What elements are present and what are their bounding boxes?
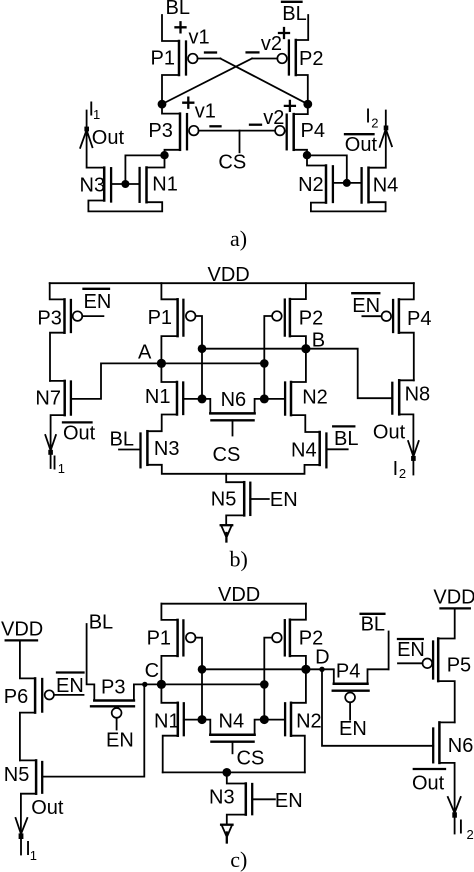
wire P3 source [162,104,180,114]
svg-text:N2: N2 [298,174,324,196]
svg-text:BL: BL [282,3,306,25]
wire VDD bar (fig c left) [6,639,37,641]
wire VDD rail (fig b) [50,282,414,284]
wire N2 source to N4 [291,415,320,432]
transistor P4 (PMOS, fig a) [275,114,325,150]
label minus (P1 gate) [205,51,216,53]
transistor N5 (NMOS, fig b) [211,474,251,516]
wire N1 drain [147,157,165,168]
node junction A-line right [260,359,269,368]
svg-text:b): b) [230,547,248,572]
wire right mirror gate link [307,155,347,183]
wire N3 gate stub EN [252,798,275,800]
wire P2 gate riser to node A line [264,316,272,399]
svg-text:c): c) [230,847,247,872]
wire P4 drain to N8 [399,333,414,381]
current arrow I1 (fig c) [16,818,28,855]
wire node A to N7 gate [71,363,161,399]
label I1 (fig b) [52,452,65,476]
svg-text:P3: P3 [101,677,125,699]
node N2 gate junction [260,394,269,403]
svg-text:P5: P5 [447,654,471,676]
svg-text:EN: EN [106,730,134,752]
svg-text:N8: N8 [405,383,431,405]
wire P4 source [294,104,308,114]
svg-text:Out: Out [412,772,445,794]
svg-text:EN: EN [84,291,112,313]
wire bottom rail (fig c) [163,771,305,773]
label EN-bar (P5) [397,639,425,661]
transistor P3 (PMOS, fig b) [37,283,82,333]
svg-text:Out: Out [345,134,378,156]
node right cross junction [303,100,312,109]
svg-text:I: I [458,817,464,839]
node BL label (fig a left) [166,0,190,19]
ground symbol (fig c) [221,825,232,843]
label minus (left of CS) [211,125,221,127]
svg-text:P2: P2 [299,48,323,70]
svg-text:VDD: VDD [218,584,260,606]
wire P1 gate lead [198,58,221,60]
wire node B to N8 gate [306,349,392,399]
current arrow I2 (fig a) [380,126,392,147]
wire N3 gate stub BL [119,449,141,451]
transistor N6 (NMOS, fig c) [433,722,473,763]
wire N2 source to rail (fig c) [291,736,305,773]
label CS (fig b) [213,444,241,466]
svg-text:CS: CS [218,152,246,174]
wire P1 drain to node C [161,656,177,685]
wire N7 source to arrow [51,415,65,449]
wire N2 gate lead (fig c) [264,719,285,721]
svg-text:Out: Out [31,797,64,819]
label Out (fig a left) [92,127,125,149]
svg-text:C: C [145,660,159,682]
wire node D riser to N6 gate [322,669,433,746]
node C junction [157,680,166,689]
transistor N7 (NMOS, fig b) [35,381,71,415]
label Out (fig c left) [31,797,64,819]
transistor P3 (PMOS horizontal, fig c) [91,677,161,730]
svg-text:Out: Out [373,422,406,444]
label I1 (fig c) [25,838,37,863]
current arrow I1 (fig a) [80,127,92,148]
svg-text:a): a) [230,226,247,251]
svg-text:2: 2 [399,466,406,481]
node right gate junction [343,179,351,187]
label EN-bar (P6) [56,673,84,698]
wire CS stub [239,131,241,153]
svg-text:N3: N3 [154,438,180,460]
wire node A line [161,362,264,364]
transistor N6 (NMOS horizontal, fig b) [202,389,264,436]
node junction D-line left [198,665,207,674]
transistor N1 (NMOS, fig c) [154,684,184,735]
svg-text:N4: N4 [291,439,317,461]
transistor P1 (PMOS, fig c) [147,604,196,656]
transistor P2 (PMOS, fig c) [272,604,323,656]
label BL (fig b left) [110,429,134,451]
label VDD (fig c center) [218,584,260,606]
caption c) [230,847,247,872]
node D junction [301,665,310,674]
wire P4 drain [294,150,307,155]
svg-text:N1: N1 [154,710,180,732]
current arrow I1 (fig b) [45,435,56,468]
svg-text:I: I [52,452,58,474]
label EN (P3 fig c) [106,730,134,752]
svg-text:P1: P1 [151,48,175,70]
svg-text:EN: EN [270,489,298,511]
wire P1 drain to node A [161,336,177,363]
wire P1 drain [162,75,179,104]
label C [145,660,159,682]
wire VDD rail (fig c) [161,603,306,605]
wire N4 drain [369,111,386,168]
svg-text:v1: v1 [189,27,210,49]
transistor N3 (NMOS, fig a) [80,168,112,202]
label minus (P2 gate) [247,51,259,53]
wire P5 drain to N6 [438,681,455,722]
svg-text:N6: N6 [221,389,247,411]
label EN (fig b) [270,489,298,511]
svg-text:CS: CS [213,444,241,466]
wire P1 gate riser to node B line [196,316,203,399]
wire N2 drain [307,157,326,166]
transistor N4 (NMOS horizontal, fig c) [202,711,264,754]
node left cross junction [158,100,167,109]
svg-text:N6: N6 [448,735,474,757]
transistor N3 (NMOS, fig c) [209,772,252,814]
svg-text:P4: P4 [336,660,360,682]
wire BL to P3 [87,624,95,701]
svg-text:N5: N5 [211,488,237,510]
node junction B-line left [198,344,207,353]
label + v1 (middle) [183,98,216,123]
label minus (right of CS) [250,124,261,126]
wire N6 source to arrow [439,763,454,812]
svg-text:N1: N1 [152,174,178,196]
wire N2 gate lead [264,398,285,400]
svg-text:A: A [138,342,152,364]
svg-text:EN: EN [352,295,380,317]
wire N5 gate to node C riser [42,684,144,776]
svg-text:N1: N1 [145,386,171,408]
svg-text:P1: P1 [147,628,171,650]
node D riser junction (small) [319,667,324,672]
svg-text:N2: N2 [302,386,328,408]
svg-text:1: 1 [30,848,37,863]
node junction C-line right [260,680,269,689]
transistor N5 (NMOS, fig c) [4,760,42,793]
label + v2 (middle) [263,101,295,129]
wire P2 gate riser (fig c) [264,638,272,720]
label I2 (fig c) [458,817,474,843]
wire N1 source to N3 [147,415,177,432]
wire P2 gate lead [252,58,277,60]
svg-text:1: 1 [58,461,65,476]
svg-text:2: 2 [371,116,378,131]
label D [315,647,329,669]
label I2 (fig b) [393,458,407,481]
label Out-bar (fig a right) [345,134,378,156]
svg-text:EN: EN [339,718,367,740]
svg-text:P2: P2 [299,307,323,329]
svg-text:BL: BL [361,614,385,636]
svg-text:Out: Out [92,127,125,149]
wire N1 gate lead (fig c) [184,719,202,721]
svg-text:BL: BL [166,0,190,19]
node A junction [157,359,166,368]
label I1 (fig a) [89,99,101,122]
transistor N2 (NMOS, fig a) [298,166,333,203]
label BL-bar (fig b right) [333,426,358,449]
wire P3 gate stub EN-bar [82,315,103,317]
transistor P4 (PMOS horizontal, fig c) [333,660,389,719]
label I2 (fig a) [365,105,378,130]
svg-text:Out: Out [63,423,96,445]
ground symbol (fig b) [221,525,233,541]
wire node B line [202,348,306,350]
svg-text:v2: v2 [261,33,282,55]
transistor P3 (PMOS, fig a) [148,114,198,150]
transistor P1 (PMOS, fig a) [151,41,198,75]
transistor N8 (NMOS, fig b) [392,380,430,414]
svg-text:CS: CS [237,747,265,769]
transistor P2 (PMOS, fig b) [272,283,323,336]
label B [312,329,325,351]
svg-text:2: 2 [467,827,474,842]
svg-text:v1: v1 [195,101,216,123]
node C riser junction (small) [142,682,147,687]
label Out-bar (fig c right) [412,769,445,794]
transistor P2 (PMOS, fig a) [277,40,323,75]
wire N5 source [226,515,244,524]
transistor N2 (NMOS, fig c) [285,669,322,735]
wire P6 drain to N5 [20,713,35,761]
wire N3-N1 source rail [88,201,162,212]
node N3 drain junction [222,768,231,777]
svg-text:D: D [315,647,329,669]
caption a) [230,226,247,251]
wire N3 source [227,815,246,824]
wire CS gate line (P3 to P4) [199,130,277,132]
svg-text:EN: EN [275,790,303,812]
current arrow I2 (fig c) [448,797,461,834]
node N2 gate junction (fig c) [260,715,269,724]
wire P2 drain to node B [290,336,306,349]
node left mirror junction [160,151,168,159]
transistor N1 (NMOS, fig a) [140,168,178,203]
svg-text:N5: N5 [4,764,30,786]
wire BL to P1 source [162,15,179,41]
wire P6 gate stub EN-bar [54,694,84,696]
wire node C line [161,683,264,685]
svg-text:EN: EN [397,639,425,661]
transistor N4 (NMOS, fig a) [362,168,399,203]
label + v2 (top) [261,28,289,55]
wire cross-couple P2 gate to left node [162,59,252,105]
node B junction [301,344,310,353]
svg-text:N4: N4 [219,711,245,733]
wire P5 gate stub EN-bar [398,662,423,664]
wire N5 gate stub EN [250,498,268,500]
transistor N4 (NMOS, fig b) [291,432,326,467]
svg-text:1: 1 [93,107,100,122]
caption b) [230,547,248,572]
svg-text:N2: N2 [296,710,322,732]
wire N8 source to arrow [399,414,413,455]
wire P2 drain to node D [290,656,306,669]
svg-text:P6: P6 [4,686,28,708]
node N1 gate junction [198,394,207,403]
wire P1 gate riser (fig c) [196,638,203,720]
wire N2-N4 source rail [311,202,386,211]
node N1 gate junction (fig c) [198,715,207,724]
label EN-bar (fig b right) [352,293,380,317]
label VDD (fig c right) [433,586,474,608]
svg-text:N3: N3 [80,175,106,197]
transistor N3 (NMOS, fig b) [141,431,180,467]
svg-text:P1: P1 [148,307,172,329]
wire cross-couple P1 gate to right node [220,59,307,105]
wire node D line [202,668,306,670]
svg-text:I: I [393,458,399,480]
label CS (fig c) [237,747,265,769]
wire node D to P4 [306,669,334,684]
svg-text:BL: BL [110,429,134,451]
wire P4 gate stub EN-bar [362,315,381,317]
label VDD (fig c left) [1,619,43,641]
svg-text:N3: N3 [209,787,235,809]
wire N2-N4 gate lead [333,182,362,184]
svg-text:EN: EN [56,675,84,697]
svg-text:I: I [365,105,371,127]
svg-text:BL: BL [89,611,113,633]
wire bottom rail (fig b) [147,465,319,474]
wire VDD bar (fig c right) [441,607,470,609]
wire P3 drain to N7 [50,333,65,381]
wire left mirror gate link [125,155,164,184]
svg-text:P4: P4 [407,308,431,330]
label EN (fig c bottom) [275,790,303,812]
label BL-bar (fig c) [361,614,385,636]
wire P3 drain [165,150,181,155]
label BL (fig c) [89,611,113,633]
wire N5 source to arrow [21,794,36,833]
wire N3 drain [87,111,105,168]
transistor P5 (PMOS, fig c) [423,608,472,681]
svg-text:N7: N7 [35,388,61,410]
wire P2 drain [296,75,308,104]
transistor N2 (NMOS, fig b) [285,349,328,415]
node left gate junction [121,180,129,188]
label + v1 (top) [176,22,210,48]
transistor P1 (PMOS, fig b) [148,283,196,336]
svg-text:BL: BL [334,428,358,450]
label VDD (fig b) [208,264,250,286]
label Out-bar (fig b left) [63,422,96,444]
transistor P6 (PMOS, fig c) [4,640,54,712]
svg-text:N4: N4 [373,174,399,196]
transistor N1 (NMOS, fig b) [145,363,183,414]
svg-text:VDD: VDD [1,619,43,641]
label Out (fig b right) [373,422,406,444]
wire N1 gate lead [183,398,202,400]
svg-text:P3: P3 [148,120,172,142]
node right mirror junction [303,151,311,159]
wire BL-bar to P2 source [296,15,308,40]
svg-text:P3: P3 [37,308,61,330]
transistor P4 (PMOS, fig b) [382,283,432,333]
label EN-bar (fig b left) [84,289,112,313]
svg-text:VDD: VDD [433,586,474,608]
wire N4 gate stub BL-bar [326,448,347,450]
wire N3-N1 gate lead [111,183,140,185]
label EN (P4 fig c) [339,718,367,740]
label CS (fig a) [218,152,246,174]
current arrow I2 (fig b) [408,441,419,475]
wire BL-bar to P4 [388,632,390,670]
label A [138,342,152,364]
node BL-bar label (fig a right) [282,2,307,25]
wire N1 source to rail (fig c) [163,736,178,773]
svg-text:P4: P4 [301,120,325,142]
